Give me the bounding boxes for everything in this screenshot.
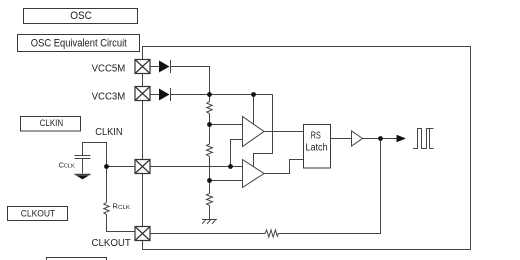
svg-text:CLK: CLK [64,164,76,170]
svg-text:CLKIN: CLKIN [40,118,64,129]
svg-text:VCC5M: VCC5M [92,64,126,75]
svg-text:VCC3M: VCC3M [92,92,126,103]
svg-text:CLK: CLK [118,205,131,211]
svg-text:Latch: Latch [306,143,328,154]
svg-text:OSC Equivalent Circuit: OSC Equivalent Circuit [31,37,127,49]
svg-text:CLKIN: CLKIN [95,127,122,138]
svg-text:RS: RS [311,130,321,141]
svg-text:CLKOUT: CLKOUT [21,208,56,219]
svg-text:CLKOUT: CLKOUT [92,238,131,249]
svg-text:OSC: OSC [70,10,92,22]
